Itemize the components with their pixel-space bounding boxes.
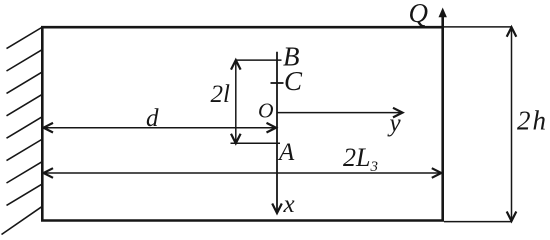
top extension line xyxy=(444,26,512,28)
svg-text:y: y xyxy=(387,110,402,137)
x-axis arrowhead xyxy=(272,204,282,214)
svg-text:O: O xyxy=(258,99,274,123)
2L3 arrow left xyxy=(44,168,54,178)
dimension 2l line xyxy=(235,61,237,143)
dimension d line xyxy=(44,127,276,129)
svg-text:x: x xyxy=(283,191,295,218)
2l top extension at B xyxy=(236,59,282,61)
2l bottom extension at A xyxy=(231,142,281,144)
dimension 2L3 line xyxy=(44,172,442,174)
svg-text:C: C xyxy=(284,66,303,96)
2l arrow up xyxy=(231,60,241,70)
crack line / x-axis xyxy=(276,52,278,213)
d arrow right xyxy=(267,123,277,133)
svg-text:2L3: 2L3 xyxy=(343,143,378,175)
2l arrow down xyxy=(231,134,241,144)
svg-text:A: A xyxy=(277,139,295,166)
beam outline xyxy=(42,27,442,220)
fixed wall hatching xyxy=(2,27,43,235)
crack tip tick C xyxy=(271,82,284,84)
svg-text:d: d xyxy=(146,105,159,132)
dimension 2h line xyxy=(511,27,513,221)
d arrow left xyxy=(44,123,54,133)
2L3 arrow right xyxy=(432,168,442,178)
load Q arrow xyxy=(439,8,447,27)
2h arrow down xyxy=(507,212,517,222)
svg-text:2h: 2h xyxy=(517,106,548,136)
2h arrow up xyxy=(507,27,517,37)
bottom extension line xyxy=(444,221,512,223)
y-axis xyxy=(278,112,402,114)
y-axis arrowhead xyxy=(393,108,403,118)
svg-text:2l: 2l xyxy=(211,81,231,108)
svg-text:Q: Q xyxy=(409,0,429,28)
